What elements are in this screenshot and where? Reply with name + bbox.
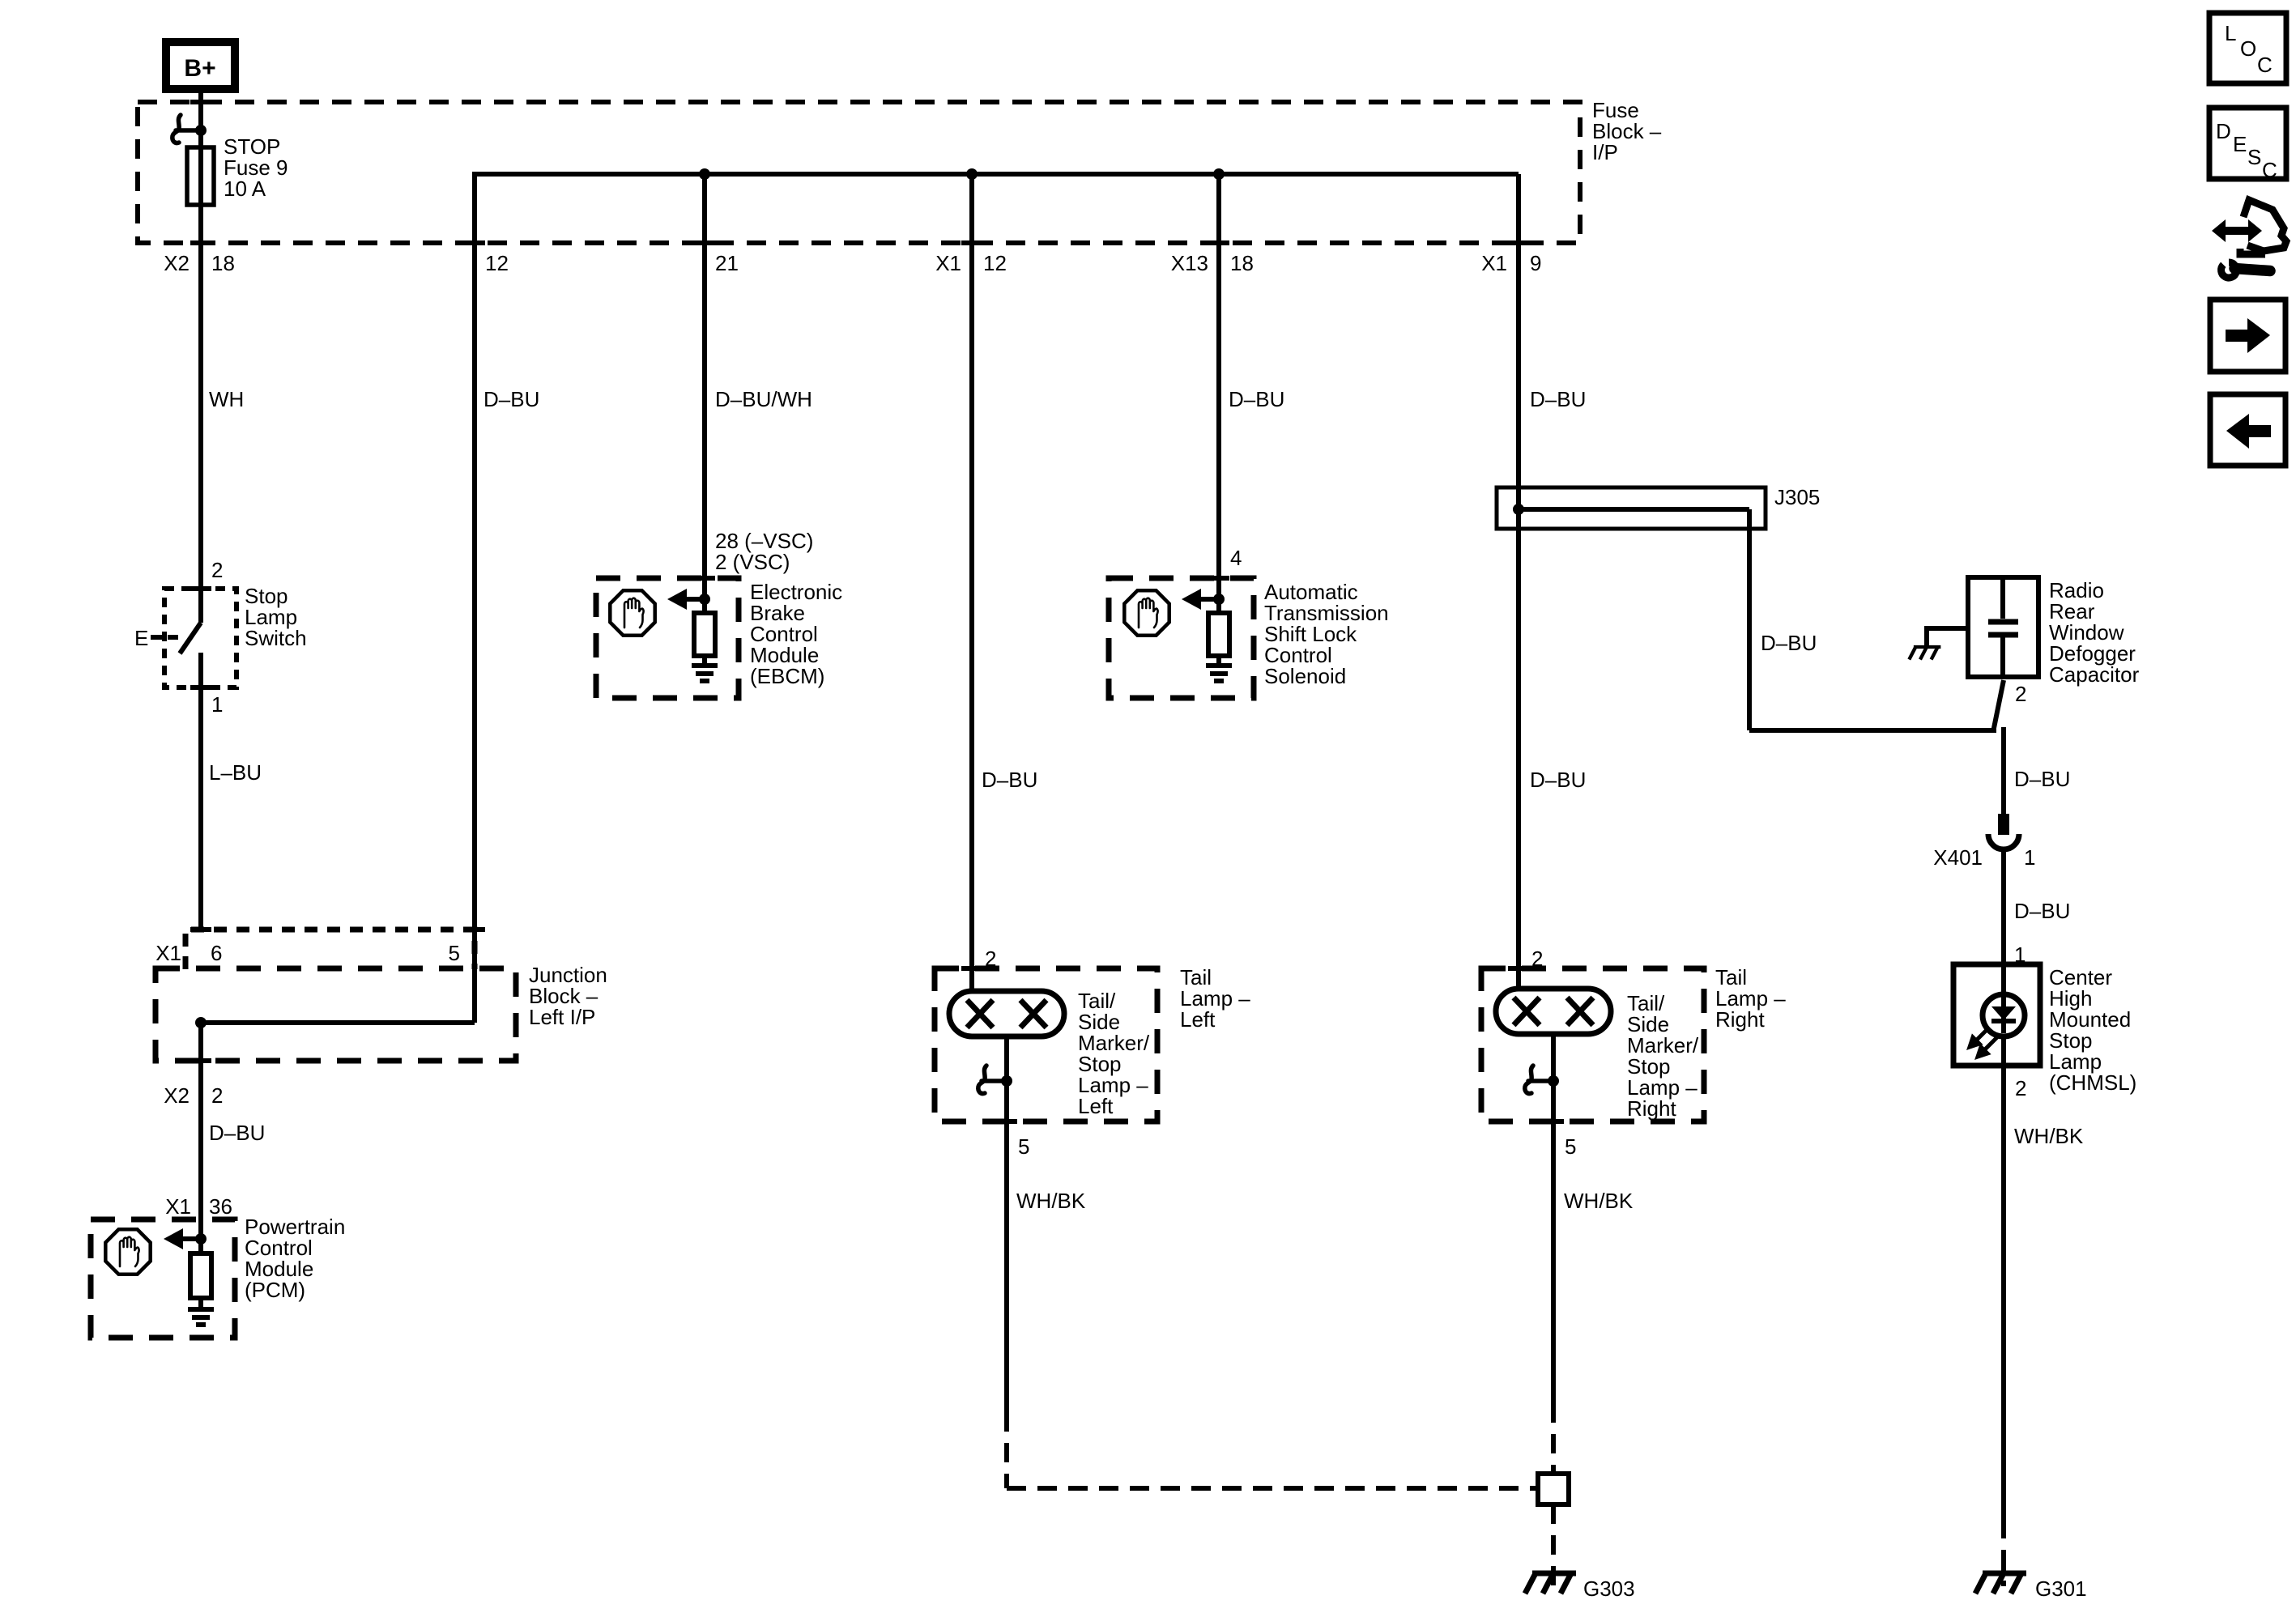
tail lamp right dashed box: [1481, 968, 1704, 1121]
svg-text:2: 2: [211, 1083, 223, 1108]
battery B+ box: [166, 42, 235, 89]
svg-text:9: 9: [1530, 251, 1541, 275]
capacitor case ground: [1927, 626, 1968, 631]
junction at fuse clip: [195, 125, 207, 136]
tail/stop bulb left: [949, 991, 1064, 1036]
svg-text:X1: X1: [1481, 251, 1507, 275]
svg-text:5: 5: [1565, 1134, 1576, 1159]
svg-text:WH/BK: WH/BK: [1564, 1189, 1634, 1213]
bulb bottom wire: [1004, 1036, 1009, 1412]
hand icon PCM: [105, 1229, 150, 1274]
lamp curl right: [1525, 1066, 1553, 1094]
svg-text:X2: X2: [164, 1083, 190, 1108]
arrow into solenoid: [1199, 597, 1219, 602]
svg-text:O: O: [2240, 36, 2256, 61]
svg-text:G301: G301: [2035, 1577, 2087, 1601]
cap plate 2: [1988, 632, 2018, 638]
svg-text:E: E: [2233, 132, 2247, 156]
svg-text:G303: G303: [1583, 1577, 1635, 1601]
internal jumper wire: [201, 1020, 475, 1025]
switch blade: [198, 589, 203, 623]
wire bus to tail lamp left: [969, 174, 974, 991]
svg-text:D–BU: D–BU: [2014, 899, 2070, 923]
svg-text:B+: B+: [184, 55, 215, 82]
svg-text:12: 12: [983, 251, 1007, 275]
svg-text:2: 2: [211, 558, 223, 582]
hand icon solenoid: [1124, 590, 1169, 635]
svg-text:18: 18: [211, 251, 235, 275]
EBCM internal ground: [692, 666, 718, 681]
arrow into EBCM: [685, 597, 705, 602]
inline connector X401: [1998, 814, 2009, 835]
svg-text:S: S: [2247, 145, 2261, 169]
svg-text:21: 21: [715, 251, 739, 275]
EBCM dashed box: [596, 578, 739, 698]
PCM internal ground: [188, 1309, 214, 1325]
next-page arrow icon: [2210, 300, 2285, 372]
svg-text:JunctionBlock –Left I/P: JunctionBlock –Left I/P: [529, 963, 607, 1029]
svg-text:D: D: [2216, 119, 2231, 143]
dashed ground wire tail left: [1004, 1412, 1009, 1488]
hand-wrench tool icon: [2212, 200, 2286, 254]
fuse block I/P dashed box: [138, 102, 1580, 243]
wire bus corner to J305 and tail right: [1516, 174, 1521, 991]
svg-text:18: 18: [1230, 251, 1254, 275]
wire J305 to defogger capacitor node: [1747, 509, 1752, 730]
junction block X1 connector dotted strip: [185, 930, 475, 969]
diagonal jog to capacitor pin: [1993, 680, 2004, 732]
LED symbol: [1983, 994, 2025, 1036]
dash from E: [151, 635, 162, 640]
svg-text:X1: X1: [155, 941, 181, 965]
svg-text:C: C: [2257, 53, 2273, 77]
svg-text:12: 12: [485, 251, 509, 275]
tail lamp left dashed box: [935, 968, 1157, 1121]
fuse F9 STOP 10A: [187, 147, 214, 205]
automatic transmission shift lock control solenoid dashed box: [1109, 578, 1254, 698]
svg-text:4: 4: [1230, 546, 1242, 570]
svg-text:5: 5: [449, 941, 460, 965]
cap top lead: [2000, 577, 2005, 619]
powertrain control module (PCM) dashed box: [91, 1219, 235, 1338]
DESC icon box: [2209, 108, 2286, 179]
solenoid coil: [1208, 613, 1229, 656]
svg-text:D–BU: D–BU: [209, 1121, 265, 1145]
wire to PCM: [198, 1023, 203, 1219]
wire X401 to CHMSL: [2001, 850, 2006, 966]
LOC icon box: [2209, 13, 2286, 83]
cap plate 1: [1988, 619, 2018, 625]
svg-text:2: 2: [2015, 682, 2026, 706]
svg-text:D–BU: D–BU: [483, 387, 539, 411]
splice J305: [1497, 487, 1766, 529]
svg-text:6: 6: [211, 941, 222, 965]
svg-text:D–BU: D–BU: [1530, 387, 1586, 411]
svg-text:D–BU: D–BU: [982, 768, 1037, 792]
radio rear window defogger capacitor box: [1968, 577, 2038, 677]
svg-text:36: 36: [209, 1194, 232, 1219]
hand icon EBCM: [610, 590, 654, 635]
svg-text:5: 5: [1018, 1134, 1029, 1159]
svg-text:L: L: [2225, 21, 2236, 45]
wire bus to EBCM: [702, 174, 707, 578]
svg-text:X1: X1: [935, 251, 961, 275]
svg-text:J305: J305: [1774, 485, 1820, 509]
junction in J305: [1513, 504, 1524, 515]
EBCM internal resistor: [694, 613, 715, 656]
svg-text:D–BU/WH: D–BU/WH: [715, 387, 812, 411]
svg-text:L–BU: L–BU: [209, 760, 262, 785]
dashed wire to splice square: [1551, 1403, 1556, 1474]
wire B+ to stop lamp switch: [198, 89, 203, 589]
cap bottom lead: [2000, 635, 2005, 677]
tail/stop bulb right: [1496, 989, 1611, 1034]
wire CHMSL to ground: [2001, 1066, 2006, 1519]
J305 internal wire: [1519, 507, 1749, 512]
svg-text:1: 1: [211, 692, 223, 717]
splice square: [1538, 1474, 1569, 1504]
bus wire from fuse: [475, 172, 1519, 177]
svg-text:X13: X13: [1171, 251, 1208, 275]
chassis ground at capacitor: [1909, 647, 1940, 660]
svg-text:X1: X1: [165, 1194, 191, 1219]
svg-text:C: C: [2262, 158, 2277, 182]
prev-page arrow icon: [2210, 394, 2285, 466]
svg-text:X401: X401: [1933, 845, 1983, 870]
svg-text:D–BU: D–BU: [1761, 631, 1817, 655]
LED arrows: [1970, 1028, 1997, 1057]
wire capacitor to X401: [2001, 727, 2006, 814]
svg-text:1: 1: [2024, 845, 2035, 870]
svg-text:2: 2: [2015, 1076, 2026, 1100]
svg-text:E: E: [134, 626, 148, 650]
svg-text:D–BU: D–BU: [2014, 767, 2070, 791]
svg-text:D–BU: D–BU: [1229, 387, 1284, 411]
junction dot in junction block: [195, 1017, 207, 1028]
ground G303: [1525, 1573, 1576, 1594]
PCM internal resistor: [190, 1253, 211, 1298]
svg-text:D–BU: D–BU: [1530, 768, 1586, 792]
stop lamp switch dashed box: [164, 589, 236, 687]
svg-text:WH/BK: WH/BK: [1016, 1189, 1086, 1213]
svg-text:WH/BK: WH/BK: [2014, 1124, 2084, 1148]
arrow into PCM: [181, 1236, 201, 1241]
solenoid internal ground: [1206, 666, 1232, 681]
svg-text:WH: WH: [209, 387, 244, 411]
ground G301: [1975, 1573, 2026, 1594]
svg-text:X2: X2: [164, 251, 190, 275]
junction block dashed box: [155, 968, 516, 1061]
lamp curl left: [978, 1066, 1007, 1094]
wire switch to junction block: [198, 653, 203, 930]
center high mounted stop lamp box: [1953, 964, 2040, 1066]
branch corner at 586: [472, 172, 477, 1023]
wire bus to shift lock solenoid: [1216, 174, 1221, 578]
fuse clip curl: [173, 115, 201, 143]
